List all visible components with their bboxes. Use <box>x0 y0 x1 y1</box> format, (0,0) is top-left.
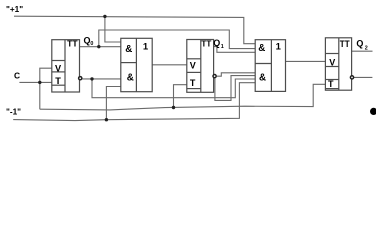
svg-text:&: & <box>127 73 134 84</box>
svg-text:&: & <box>125 44 132 55</box>
svg-text:V: V <box>329 58 335 68</box>
svg-text:0: 0 <box>90 41 93 47</box>
svg-text:V: V <box>190 61 196 71</box>
svg-text:2: 2 <box>365 46 368 52</box>
svg-text:C: C <box>14 71 20 81</box>
svg-text:TT: TT <box>67 38 78 48</box>
svg-text:&: & <box>259 73 266 84</box>
svg-text:1: 1 <box>143 41 149 52</box>
svg-text:&: & <box>258 43 265 54</box>
svg-text:1: 1 <box>221 44 224 50</box>
svg-text:1: 1 <box>276 42 282 53</box>
svg-text:T: T <box>328 79 334 89</box>
svg-text:"+1": "+1" <box>6 5 23 14</box>
svg-text:T: T <box>190 78 196 88</box>
svg-text:V: V <box>55 64 62 74</box>
svg-text:Q: Q <box>356 38 363 48</box>
svg-text:Q: Q <box>213 38 220 48</box>
svg-text:TT: TT <box>340 39 350 49</box>
svg-text:TT: TT <box>201 39 212 49</box>
svg-text:"-1": "-1" <box>6 108 21 117</box>
svg-text:T: T <box>55 76 61 86</box>
